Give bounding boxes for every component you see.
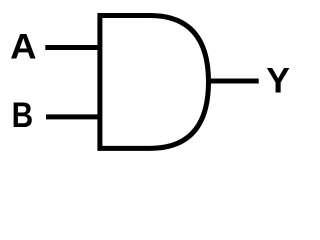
svg-text:A: A bbox=[10, 26, 36, 66]
wire: output Y bbox=[206, 79, 259, 84]
AND gate schematic bbox=[0, 0, 300, 164]
svg-text:B: B bbox=[12, 95, 34, 135]
wire: input A bbox=[45, 45, 100, 50]
AND gate U1 body bbox=[100, 15, 209, 148]
svg-text:Y: Y bbox=[266, 61, 290, 101]
wire: input B bbox=[46, 114, 100, 119]
